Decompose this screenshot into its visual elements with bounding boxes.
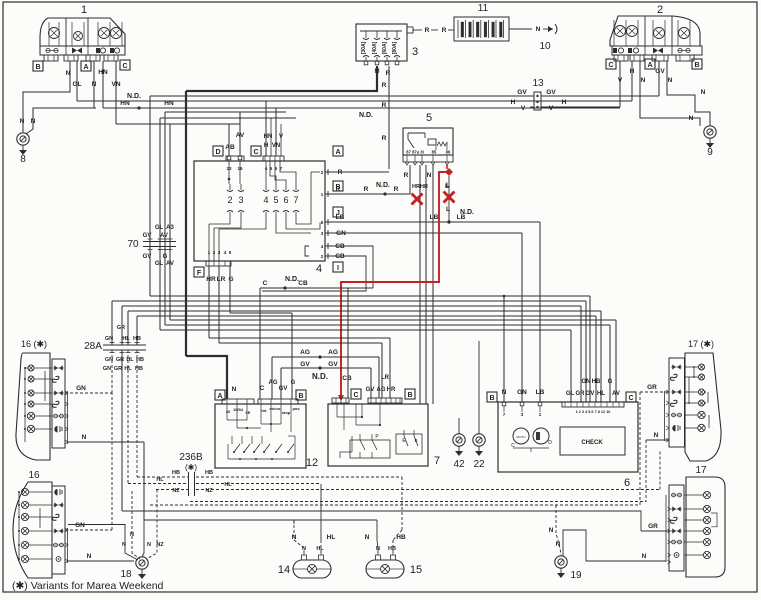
svg-text:F: F — [197, 270, 202, 277]
svg-text:HB: HB — [172, 470, 180, 476]
svg-text:B: B — [35, 64, 40, 71]
svg-text:GR: GR — [114, 366, 122, 372]
svg-text:4: 4 — [263, 195, 268, 205]
svg-text:22: 22 — [473, 459, 485, 470]
svg-text:AV: AV — [160, 233, 168, 239]
svg-text:9: 9 — [707, 147, 713, 158]
svg-text:[40A]: [40A] — [372, 41, 378, 54]
svg-text:GR: GR — [647, 384, 657, 391]
svg-text:15/54: 15/54 — [233, 407, 244, 412]
svg-text:HB: HB — [133, 336, 141, 342]
svg-text:N: N — [302, 546, 306, 552]
svg-text:28A: 28A — [84, 341, 102, 352]
svg-text:GL: GL — [155, 225, 164, 231]
svg-text:70: 70 — [127, 239, 139, 250]
svg-text:AG: AG — [377, 387, 386, 393]
svg-text:C: C — [608, 62, 613, 69]
svg-text:15: 15 — [410, 564, 422, 576]
svg-text:CB: CB — [335, 253, 345, 260]
svg-text:B: B — [298, 393, 303, 400]
svg-text:30: 30 — [226, 409, 231, 414]
svg-text:GV: GV — [586, 391, 595, 397]
svg-text:G: G — [163, 254, 168, 260]
svg-text:N: N — [20, 118, 25, 125]
svg-text:HL: HL — [156, 477, 164, 483]
svg-text:GV: GV — [517, 89, 527, 96]
svg-text:G: G — [291, 380, 296, 386]
svg-text:int: int — [262, 408, 268, 413]
svg-text:N: N — [549, 527, 554, 534]
svg-text:N: N — [376, 546, 380, 552]
svg-text:CHECK: CHECK — [581, 440, 603, 446]
svg-text:C: C — [260, 385, 265, 392]
svg-text:C: C — [122, 63, 127, 70]
svg-text:N: N — [130, 532, 134, 538]
svg-text:86: 86 — [446, 150, 451, 155]
svg-text:[30A]: [30A] — [361, 41, 367, 54]
svg-text:stop: stop — [282, 410, 291, 415]
svg-text:C: C — [353, 392, 358, 399]
svg-text:N: N — [556, 541, 561, 548]
svg-text:HR: HR — [206, 276, 216, 283]
svg-text:N.D.: N.D. — [312, 372, 328, 381]
svg-text:GN: GN — [105, 336, 113, 342]
svg-text:[80A]: [80A] — [392, 41, 398, 54]
svg-text:10: 10 — [539, 41, 551, 52]
svg-text:42: 42 — [453, 459, 465, 470]
svg-text:b: b — [415, 438, 418, 444]
svg-text:R: R — [442, 27, 447, 34]
svg-text:NZ: NZ — [205, 488, 213, 494]
svg-text:NZ: NZ — [156, 542, 164, 548]
svg-text:85: 85 — [432, 150, 437, 155]
svg-text:H: H — [630, 68, 635, 75]
svg-text:GR: GR — [576, 391, 586, 397]
svg-text:pos: pos — [292, 406, 300, 411]
svg-text:N: N — [92, 81, 97, 88]
svg-text:N: N — [642, 553, 647, 560]
svg-text:A3: A3 — [166, 225, 174, 231]
svg-text:87 87a 3I: 87 87a 3I — [406, 150, 423, 155]
svg-text:R: R — [338, 169, 343, 176]
svg-text:2: 2 — [657, 4, 663, 16]
svg-text:HRHR: HRHR — [412, 184, 428, 190]
svg-text:GV: GV — [328, 361, 338, 368]
svg-text:GV: GV — [143, 254, 152, 260]
svg-text:CB: CB — [298, 280, 308, 287]
svg-text:N: N — [292, 534, 297, 541]
svg-text:B: B — [407, 392, 412, 399]
svg-text:GN: GN — [582, 379, 591, 385]
svg-text:R: R — [382, 82, 387, 89]
svg-text:GV: GV — [546, 89, 556, 96]
svg-text:I: I — [337, 265, 339, 272]
svg-text:19: 19 — [570, 570, 582, 581]
svg-text:GN: GN — [75, 522, 85, 529]
svg-text:B: B — [694, 62, 699, 69]
svg-text:VN: VN — [111, 81, 120, 88]
svg-text:AV: AV — [612, 391, 620, 397]
svg-text:MOTO: MOTO — [517, 435, 527, 439]
svg-text:D: D — [215, 149, 220, 156]
svg-text:N: N — [536, 26, 541, 33]
svg-text:NZ: NZ — [172, 488, 180, 494]
svg-text:N: N — [31, 118, 36, 125]
svg-text:R: R — [364, 186, 369, 193]
svg-text:V: V — [618, 77, 623, 84]
svg-text:6: 6 — [283, 195, 288, 205]
svg-text:LB: LB — [336, 214, 345, 221]
svg-text:HR: HR — [387, 387, 396, 393]
svg-text:AG: AG — [269, 380, 278, 386]
svg-text:LB: LB — [536, 389, 545, 396]
svg-text:GN: GN — [103, 366, 111, 372]
svg-text:14: 14 — [278, 564, 290, 576]
svg-text:HL: HL — [597, 391, 605, 397]
svg-text:5: 5 — [273, 195, 278, 205]
svg-text:GV: GV — [300, 361, 310, 368]
svg-text:GL: GL — [155, 261, 164, 267]
svg-text:N.D.: N.D. — [359, 112, 373, 119]
svg-text:AV: AV — [166, 261, 174, 267]
svg-text:HL: HL — [327, 534, 336, 541]
svg-text:A: A — [647, 62, 652, 69]
svg-text:5: 5 — [426, 112, 432, 124]
svg-text:R: R — [382, 135, 387, 142]
svg-text:G: G — [608, 379, 613, 385]
svg-text:N: N — [232, 386, 237, 393]
svg-text:GV: GV — [366, 387, 375, 393]
svg-text:3: 3 — [238, 195, 243, 205]
svg-text:HN: HN — [98, 69, 108, 76]
svg-text:GN: GN — [336, 230, 346, 237]
svg-text:AB: AB — [225, 144, 235, 151]
svg-text:N: N — [701, 89, 706, 96]
svg-text:N.D.: N.D. — [285, 276, 299, 283]
svg-text:GV: GV — [655, 68, 665, 75]
svg-text:17 (✱): 17 (✱) — [688, 339, 714, 349]
svg-text:LR: LR — [217, 276, 226, 283]
svg-text:3: 3 — [412, 46, 418, 58]
svg-text:HL: HL — [224, 482, 232, 488]
svg-text:C: C — [628, 395, 633, 402]
svg-text:11: 11 — [478, 3, 489, 14]
svg-text:N: N — [641, 77, 646, 84]
svg-text:GV: GV — [143, 233, 152, 239]
svg-text:18: 18 — [120, 569, 132, 580]
svg-text:HL: HL — [126, 357, 134, 363]
svg-text:GN: GN — [76, 385, 86, 392]
svg-text:R: R — [336, 186, 341, 193]
svg-text:1: 1 — [81, 4, 87, 16]
svg-text:HB: HB — [396, 534, 406, 541]
svg-text:HB: HB — [592, 379, 601, 385]
svg-text:V: V — [521, 105, 526, 112]
svg-text:HN: HN — [164, 100, 174, 107]
svg-text:R: R — [394, 186, 399, 193]
svg-text:R: R — [404, 172, 409, 179]
svg-text:5E: 5E — [246, 410, 251, 415]
svg-text:HL: HL — [316, 546, 324, 552]
svg-text:D: D — [548, 440, 552, 446]
svg-text:N: N — [82, 434, 87, 441]
svg-text:GL: GL — [566, 391, 575, 397]
svg-text:GR: GR — [648, 523, 658, 530]
svg-text:GL: GL — [72, 81, 81, 88]
svg-text:N: N — [427, 172, 432, 179]
svg-text:N: N — [668, 77, 673, 84]
svg-text:R: R — [386, 70, 391, 77]
svg-text:N: N — [654, 432, 659, 439]
svg-text:A: A — [83, 64, 88, 71]
svg-text:N: N — [122, 542, 126, 548]
svg-text:12: 12 — [306, 457, 318, 469]
svg-text:16: 16 — [28, 470, 40, 481]
svg-text:H: H — [562, 99, 567, 106]
svg-text:GR: GR — [117, 325, 125, 331]
svg-text:236B: 236B — [179, 452, 203, 463]
svg-text:R: R — [425, 27, 430, 34]
svg-text:2: 2 — [227, 195, 232, 205]
svg-text:HB: HB — [388, 546, 396, 552]
svg-text:V: V — [549, 105, 554, 112]
svg-text:1 2 3 4 5 6 7 8 12 10: 1 2 3 4 5 6 7 8 12 10 — [576, 410, 611, 414]
svg-text:7: 7 — [434, 455, 440, 467]
svg-text:16 (✱): 16 (✱) — [21, 339, 47, 349]
svg-text:GR: GR — [116, 357, 124, 363]
svg-text:[60A]: [60A] — [382, 41, 388, 54]
svg-text:LB: LB — [430, 214, 439, 221]
svg-text:N: N — [365, 534, 370, 541]
svg-text:L: L — [446, 182, 450, 189]
svg-text:CB: CB — [335, 243, 345, 250]
svg-text:GN: GN — [517, 389, 527, 396]
svg-text:C: C — [263, 280, 268, 287]
svg-text:CB: CB — [342, 375, 352, 382]
svg-text:N.D.: N.D. — [376, 182, 390, 189]
svg-text:AG: AG — [328, 349, 338, 356]
svg-text:G: G — [228, 276, 233, 283]
svg-text:N.D.: N.D. — [127, 93, 141, 100]
svg-text:L: L — [446, 206, 450, 213]
svg-text:B: B — [489, 395, 494, 402]
svg-text:6: 6 — [624, 477, 630, 489]
svg-text:13: 13 — [532, 78, 544, 89]
svg-text:HL: HL — [122, 336, 130, 342]
svg-text:GV: GV — [279, 386, 288, 392]
svg-text:8: 8 — [20, 154, 26, 165]
svg-text:N.D.: N.D. — [460, 209, 474, 216]
svg-text:HB: HB — [205, 470, 213, 476]
svg-text:H: H — [511, 99, 516, 106]
svg-text:A: A — [335, 149, 340, 156]
svg-text:4: 4 — [316, 263, 322, 275]
svg-text:(✱): (✱) — [185, 463, 197, 472]
svg-text:N: N — [87, 553, 92, 560]
svg-text:N: N — [66, 70, 71, 77]
svg-text:N: N — [502, 389, 507, 396]
svg-text:N: N — [147, 542, 151, 548]
svg-text:(✱) Variants for Marea Weeken: (✱) Variants for Marea Weekend — [12, 580, 164, 592]
svg-text:C: C — [253, 149, 258, 156]
svg-text:7: 7 — [293, 195, 298, 205]
svg-text:N: N — [689, 115, 694, 122]
svg-text:HB: HB — [135, 366, 143, 372]
svg-text:HN: HN — [120, 100, 130, 107]
svg-text:AG: AG — [300, 349, 310, 356]
svg-text:17: 17 — [695, 465, 707, 476]
